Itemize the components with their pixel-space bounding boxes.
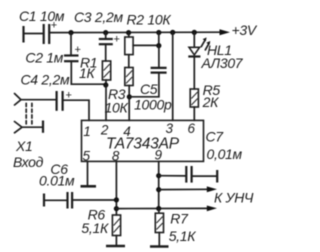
wire R2 side to C5 node (133, 44, 159, 46)
svg-text:С3 2,2м: С3 2,2м (74, 9, 123, 25)
resistor R7 (155, 213, 163, 232)
wire R1 to node A (105, 80, 107, 85)
node pin3/rail (170, 30, 175, 35)
node R2/rail (126, 30, 131, 35)
wire C5 bottom to node B (129, 73, 159, 97)
svg-text:1: 1 (83, 124, 91, 139)
svg-text:2К: 2К (202, 94, 219, 110)
svg-text:+3V: +3V (232, 22, 258, 38)
arrowhead output lower (207, 206, 217, 212)
node R7/pin9/output (156, 206, 161, 211)
capacitor C2 (64, 44, 81, 61)
svg-text:С7: С7 (206, 129, 225, 145)
node HL1/rail (192, 30, 197, 35)
resistor R1 (102, 61, 110, 80)
wire rail to C2 (70, 33, 72, 56)
node pin8/output line (114, 206, 119, 211)
wire pin 5 to ground (87, 161, 89, 186)
wire rail to HL1 (193, 32, 195, 47)
wire R7 to ground (158, 233, 160, 246)
node C5/rail (156, 30, 161, 35)
svg-text:+: + (114, 34, 120, 46)
wire C7 to tick (192, 175, 217, 177)
terminal tick C6 (43, 194, 45, 207)
node output upper (156, 187, 161, 192)
node C6/pin8 (114, 197, 119, 202)
ground pin 5 (81, 185, 97, 188)
ground R7 (150, 245, 169, 248)
resistor R2 (125, 37, 133, 55)
connector X1 dashed boundary (26, 103, 32, 125)
connector X1 upper pin (15, 94, 22, 106)
node C7 branch (156, 173, 161, 178)
LED HL1 (188, 37, 210, 56)
wire output upper arrow (159, 188, 210, 190)
wire rail to pin 3 (172, 32, 174, 120)
wire +3V rail (49, 31, 222, 33)
wire terminal to C1 (24, 33, 44, 35)
capacitor C5 (151, 68, 167, 73)
connector X1 lower pin (15, 122, 23, 133)
terminal tick C7 (216, 170, 218, 183)
svg-text:С1 10м: С1 10м (19, 8, 65, 24)
svg-text:3: 3 (166, 121, 174, 136)
terminal tick lower (42, 121, 44, 133)
wire rail to C5 node (158, 33, 160, 46)
wire node A to pin 2 (105, 85, 107, 120)
svg-text:С5: С5 (140, 81, 158, 97)
wire output lower (116, 207, 209, 209)
terminal tick left of C1 (22, 26, 24, 43)
op-amp U1 body TA7343AP (82, 120, 204, 161)
capacitor C6 (68, 192, 73, 209)
wire pin 9 down (158, 161, 160, 208)
svg-text:10К: 10К (105, 100, 129, 116)
wire rail to C3 (105, 33, 107, 39)
arrowhead output upper (207, 186, 217, 192)
svg-text:Вход: Вход (13, 154, 44, 170)
node C3/rail (103, 30, 108, 35)
wire HL1 to R5 (193, 57, 195, 90)
svg-text:ТА7343АР: ТА7343АР (106, 135, 180, 152)
capacitor C4 (57, 90, 72, 111)
node A (R1/C2/pin2) (103, 82, 108, 87)
wire R5 to pin 6 (193, 107, 195, 120)
wire pin9 to C7 (159, 175, 186, 177)
resistor R5 (190, 89, 198, 107)
wire C3 to R1 (105, 44, 107, 61)
svg-text:6: 6 (188, 121, 196, 136)
capacitor C1 (44, 20, 58, 45)
wire pin 8 down (115, 161, 117, 215)
wire tick to C6 (44, 199, 67, 201)
svg-text:R2 10К: R2 10К (127, 12, 172, 28)
node B (R3/C5) (127, 94, 132, 99)
wire R3 to node B and pin 4 (128, 86, 130, 121)
node C5 top (156, 43, 161, 48)
svg-text:С2 1м: С2 1м (25, 50, 63, 66)
wire X1 to C4 (21, 99, 56, 101)
wire node to R7 (158, 209, 160, 214)
svg-text:АЛ307: АЛ307 (201, 55, 244, 71)
svg-text:0,01м: 0,01м (207, 146, 243, 162)
capacitor C7 (186, 166, 191, 183)
svg-text:1К: 1К (79, 65, 95, 81)
svg-text:1000р: 1000р (134, 97, 172, 113)
wire R2 to R3 (128, 55, 130, 68)
svg-text:R7: R7 (170, 211, 189, 227)
ground R6 (106, 245, 125, 248)
wire C4 to pin 1 (63, 100, 89, 120)
resistor R3 (125, 68, 133, 86)
wire R6 to ground (115, 236, 117, 246)
svg-text:С4 2,2м: С4 2,2м (21, 72, 70, 88)
capacitor C3 (99, 34, 120, 46)
svg-text:0.01м: 0.01м (39, 172, 75, 188)
svg-text:5,1К: 5,1К (169, 228, 197, 244)
svg-text:Х1: Х1 (15, 138, 33, 154)
wire C5 down (158, 46, 160, 68)
svg-text:5: 5 (83, 149, 91, 164)
resistor R6 (112, 215, 120, 236)
wire C2 down and right to node A (71, 61, 105, 84)
wire X1 lower pin to tick (22, 126, 43, 128)
node C2/rail (68, 30, 73, 35)
wire C6 to pin 8 column (72, 199, 116, 201)
+3V arrowhead (220, 29, 231, 35)
wire rail to R2 (128, 33, 130, 37)
svg-text:К УНЧ: К УНЧ (214, 189, 254, 205)
svg-text:5,1К: 5,1К (81, 220, 109, 236)
